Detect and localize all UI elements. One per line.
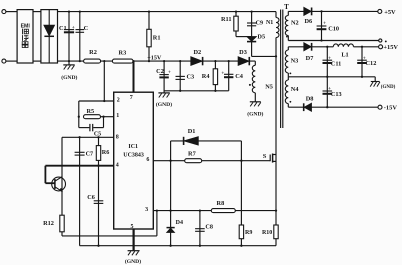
svg-text:R12: R12 xyxy=(43,220,54,227)
svg-text:D6: D6 xyxy=(304,18,312,25)
svg-text:C3: C3 xyxy=(186,73,194,80)
svg-text:L1: L1 xyxy=(341,52,348,59)
svg-text:D7: D7 xyxy=(306,55,314,62)
svg-text:C10: C10 xyxy=(328,25,339,32)
svg-text:1: 1 xyxy=(116,113,119,119)
svg-text:C4: C4 xyxy=(235,73,244,80)
svg-text:D3: D3 xyxy=(239,49,247,56)
svg-text:C1: C1 xyxy=(59,25,67,32)
svg-text:(GND): (GND) xyxy=(381,85,396,90)
svg-text:D8: D8 xyxy=(306,96,314,103)
svg-text:(GND): (GND) xyxy=(156,101,172,108)
svg-text:R6: R6 xyxy=(102,149,110,156)
svg-text:3: 3 xyxy=(145,207,148,213)
svg-text:C11: C11 xyxy=(331,60,342,67)
svg-text:D1: D1 xyxy=(188,128,196,135)
svg-text:-15V: -15V xyxy=(384,105,398,112)
svg-text:UC3843: UC3843 xyxy=(123,152,144,158)
svg-text:(GND): (GND) xyxy=(125,258,141,265)
svg-text:R1: R1 xyxy=(153,34,161,41)
svg-text:+: + xyxy=(72,25,75,31)
svg-text:R5: R5 xyxy=(86,108,94,115)
svg-text:C2: C2 xyxy=(156,68,164,75)
svg-text:N1: N1 xyxy=(266,20,273,26)
svg-text:7: 7 xyxy=(130,95,133,101)
svg-text:R7: R7 xyxy=(188,150,196,157)
svg-text:T: T xyxy=(284,3,289,11)
svg-text:+5V: +5V xyxy=(384,9,396,16)
svg-text:R9: R9 xyxy=(245,230,252,236)
svg-text:D4: D4 xyxy=(176,220,183,226)
svg-text:C5: C5 xyxy=(94,131,101,137)
svg-text:EMI: EMI xyxy=(21,23,31,29)
svg-text:+: + xyxy=(168,70,171,76)
svg-text:+: + xyxy=(323,21,326,27)
svg-text:(GND): (GND) xyxy=(247,111,263,118)
svg-text:S: S xyxy=(263,153,267,160)
svg-text:+15V: +15V xyxy=(383,44,398,51)
svg-text:8: 8 xyxy=(116,134,119,140)
svg-text:R11: R11 xyxy=(221,16,232,23)
svg-text:C9: C9 xyxy=(256,21,263,27)
svg-text:N2: N2 xyxy=(291,19,299,26)
svg-text:(GND): (GND) xyxy=(61,74,77,81)
svg-text:+: + xyxy=(221,70,224,76)
svg-text:C8: C8 xyxy=(205,224,213,231)
svg-text:C12: C12 xyxy=(366,60,377,67)
svg-text:N3: N3 xyxy=(291,57,299,64)
svg-text:R4: R4 xyxy=(202,73,211,80)
svg-text:IC1: IC1 xyxy=(128,144,138,150)
svg-text:D2: D2 xyxy=(193,49,201,56)
svg-text:C: C xyxy=(84,25,89,32)
svg-text:C7: C7 xyxy=(86,151,94,158)
svg-text:R2: R2 xyxy=(89,49,97,56)
svg-text:N5: N5 xyxy=(265,83,273,90)
svg-text:C13: C13 xyxy=(331,91,342,98)
svg-text:C6: C6 xyxy=(87,194,95,201)
svg-text:6: 6 xyxy=(146,157,149,163)
svg-text:N4: N4 xyxy=(291,86,300,93)
svg-text:D5: D5 xyxy=(257,33,265,40)
svg-text:2: 2 xyxy=(117,98,120,104)
svg-text:R3: R3 xyxy=(119,50,127,57)
svg-text:4: 4 xyxy=(116,162,119,168)
svg-text:R10: R10 xyxy=(262,230,272,236)
svg-text:R8: R8 xyxy=(217,200,225,207)
